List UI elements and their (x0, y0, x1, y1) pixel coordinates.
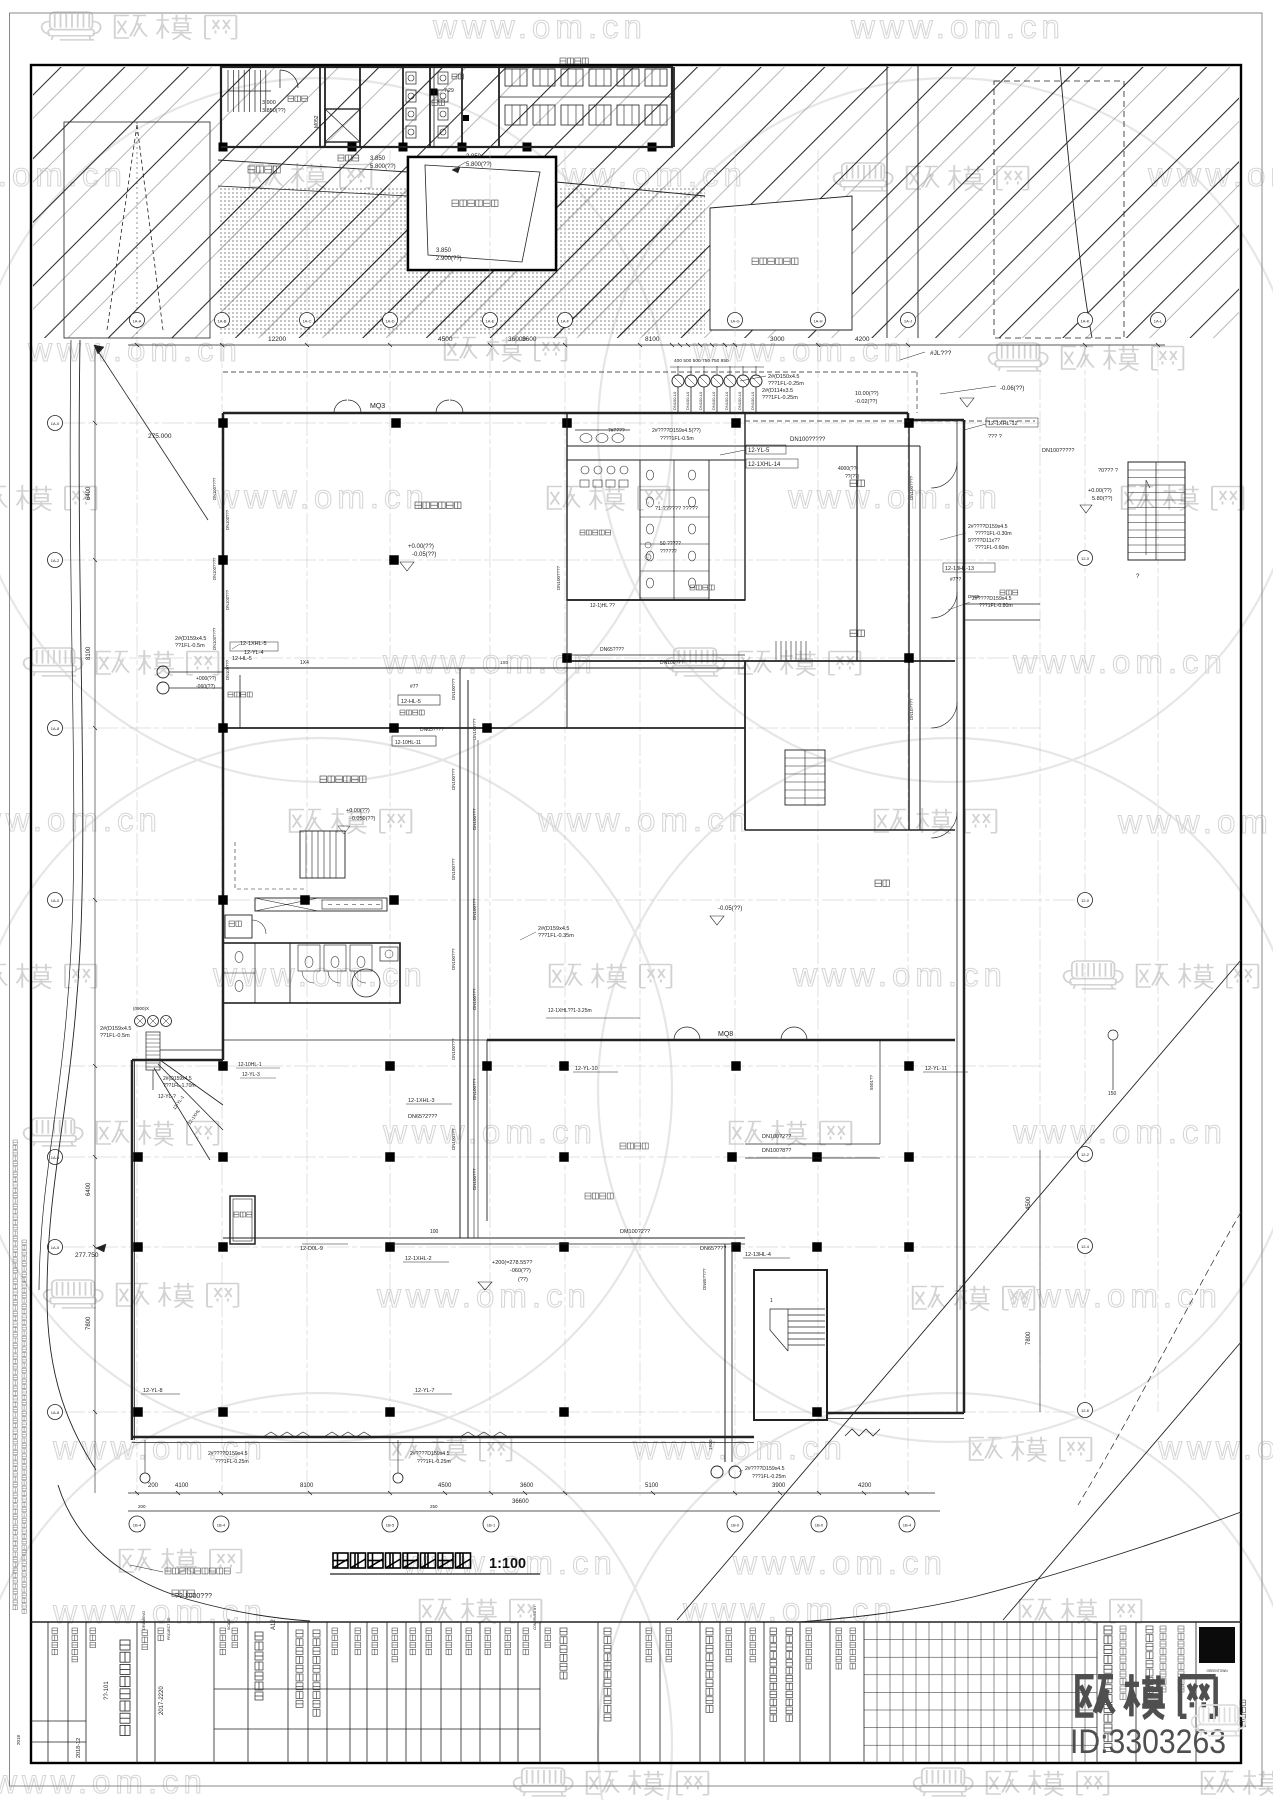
svg-text:2018: 2018 (16, 1734, 21, 1745)
svg-text:12-1XHL-14: 12-1XHL-14 (748, 462, 781, 468)
svg-text:1B-0: 1B-0 (815, 1523, 824, 1528)
svg-text:2.900(??): 2.900(??) (436, 256, 462, 262)
svg-text:DN100???: DN100??? (225, 659, 230, 680)
svg-text:12-1XHL-12: 12-1XHL-12 (988, 421, 1018, 427)
svg-text:MQ3: MQ3 (370, 403, 385, 410)
svg-text:5.800(??): 5.800(??) (466, 162, 492, 168)
svg-text:MQ8: MQ8 (718, 1031, 733, 1038)
svg-text:8100: 8100 (645, 336, 660, 343)
svg-text:??1FL-0.5m: ??1FL-0.5m (175, 643, 205, 649)
svg-text:DM100?2??: DM100?2?? (620, 1229, 650, 1235)
svg-text:12-YL-8: 12-YL-8 (143, 1388, 163, 1394)
svg-text:200: 200 (148, 1483, 159, 1489)
svg-text:3.850: 3.850 (370, 156, 386, 162)
svg-text:???1FL-0.25m: ???1FL-0.25m (768, 381, 804, 387)
svg-text:2017-2220: 2017-2220 (159, 1686, 165, 1715)
svg-text:8100: 8100 (86, 646, 92, 660)
svg-text:12-10HL-11: 12-10HL-11 (395, 740, 421, 746)
svg-text:1X4: 1X4 (300, 660, 309, 666)
svg-text:1A-8: 1A-8 (51, 1410, 60, 1415)
svg-text:DN100????: DN100???? (212, 477, 217, 500)
svg-text:DN100???: DN100??? (451, 768, 456, 790)
svg-text:12-HL-5: 12-HL-5 (232, 656, 252, 662)
svg-text:3900: 3900 (772, 1483, 786, 1489)
svg-text:3.850: 3.850 (466, 154, 482, 160)
svg-text:www.om.cn: www.om.cn (1117, 803, 1273, 840)
svg-text:12-YL-3: 12-YL-3 (242, 1072, 260, 1078)
svg-text:???1FL-0.25m: ???1FL-0.25m (417, 1459, 451, 1465)
svg-text:DN100???: DN100??? (451, 1128, 456, 1150)
svg-text:???1FL-0.35m: ???1FL-0.35m (538, 933, 574, 939)
svg-text:www.om.cn: www.om.cn (537, 801, 752, 838)
svg-text:www.om.cn: www.om.cn (0, 1763, 207, 1800)
svg-text:1A-F: 1A-F (561, 319, 570, 324)
svg-text:DN10????: DN10???? (909, 698, 914, 720)
svg-text:DN100?2??: DN100?2?? (762, 1134, 791, 1140)
svg-text:DRAWING: DRAWING (141, 1611, 146, 1630)
svg-text:???1FL-0.80m: ???1FL-0.80m (979, 603, 1013, 609)
svg-text:www.om.cn: www.om.cn (376, 1277, 591, 1314)
svg-text:DN65????: DN65???? (420, 727, 444, 733)
svg-text:3.850(??): 3.850(??) (262, 108, 286, 114)
svg-text:12-YL-5: 12-YL-5 (748, 448, 770, 454)
svg-text:3600: 3600 (520, 1483, 534, 1489)
svg-text:?0??? ?: ?0??? ? (1098, 468, 1118, 474)
svg-text:12-1)HL ??: 12-1)HL ?? (590, 603, 615, 609)
svg-text:12-0: 12-0 (1081, 556, 1090, 561)
svg-text:5.80(??): 5.80(??) (1092, 496, 1113, 502)
svg-text:#JL???: #JL??? (930, 350, 952, 357)
svg-text:www.om.cn: www.om.cn (787, 478, 1002, 515)
svg-text:2018-12: 2018-12 (76, 1738, 82, 1758)
svg-text:1A-H: 1A-H (813, 319, 822, 324)
svg-text:36000: 36000 (508, 336, 526, 343)
svg-text:1A-2: 1A-2 (51, 558, 60, 563)
svg-text:400 500 500 750 750 850: 400 500 500 750 750 850 (674, 358, 729, 364)
svg-text:150: 150 (1108, 1091, 1117, 1097)
svg-text:4500: 4500 (438, 1483, 452, 1489)
svg-text:??-101: ??-101 (104, 1681, 110, 1700)
svg-text:DN100???: DN100??? (451, 858, 456, 880)
svg-text:9????D11x??: 9????D11x?? (968, 538, 1000, 544)
svg-text:12-YL-10: 12-YL-10 (575, 1066, 598, 1072)
svg-text:PROJECT NO: PROJECT NO (167, 1617, 171, 1640)
svg-text:3.850: 3.850 (436, 248, 452, 254)
svg-text:DN65????: DN65???? (600, 647, 624, 653)
svg-text:4200: 4200 (858, 1483, 872, 1489)
svg-text:www.om.cn: www.om.cn (1012, 643, 1227, 680)
svg-text:2#(D159x4.5: 2#(D159x4.5 (175, 636, 207, 642)
svg-text:5501??: 5501?? (869, 1074, 874, 1090)
svg-text:4100: 4100 (175, 1483, 189, 1489)
svg-text:www.om.cn: www.om.cn (850, 8, 1065, 45)
svg-text:275.000: 275.000 (148, 433, 172, 440)
svg-text:CONFIRMED BY: CONFIRMED BY (533, 1605, 537, 1630)
svg-text:1:100: 1:100 (489, 1556, 526, 1572)
svg-text:????1FL-0.30m: ????1FL-0.30m (975, 531, 1012, 537)
svg-text:??(??): ??(??) (845, 474, 860, 480)
svg-text:4000(??): 4000(??) (838, 466, 858, 472)
svg-text:1A-C: 1A-C (302, 319, 311, 324)
svg-text:1B-0: 1B-0 (731, 1523, 740, 1528)
svg-text:7.29: 7.29 (444, 88, 454, 94)
svg-text:1X0: 1X0 (500, 660, 509, 665)
svg-text:12-13HL-13: 12-13HL-13 (945, 566, 974, 572)
svg-text:2#????D159x4.5(??): 2#????D159x4.5(??) (652, 428, 701, 434)
svg-text:DN100????: DN100???? (909, 475, 914, 500)
svg-text:2#(D150x4.5: 2#(D150x4.5 (768, 374, 800, 380)
svg-text:+0.00(??): +0.00(??) (1088, 488, 1112, 494)
svg-text:1A-0: 1A-0 (51, 898, 60, 903)
svg-text:12-1XHL-2: 12-1XHL-2 (405, 1256, 432, 1262)
svg-text:12-1XHL??1-3.25m: 12-1XHL??1-3.25m (548, 1008, 592, 1014)
svg-text:1A-J: 1A-J (904, 319, 912, 324)
svg-text:2#(D159x4.5: 2#(D159x4.5 (538, 926, 570, 932)
svg-text:100: 100 (430, 1229, 439, 1235)
svg-text:DN100???: DN100??? (225, 589, 230, 610)
svg-text:3.900: 3.900 (262, 100, 276, 106)
svg-text:277.750: 277.750 (75, 1252, 99, 1259)
svg-text:5100: 5100 (645, 1483, 659, 1489)
svg-text:DN100???: DN100??? (472, 898, 477, 920)
svg-text:DN100-L0: DN100-L0 (724, 391, 729, 410)
svg-text:DN100???: DN100??? (472, 718, 477, 740)
svg-text:2#????D159x4.5: 2#????D159x4.5 (745, 1466, 785, 1472)
svg-text:-060(??): -060(??) (196, 684, 215, 690)
svg-text:7800: 7800 (86, 1316, 92, 1330)
svg-text:ID:3303263: ID:3303263 (1070, 1723, 1226, 1761)
svg-text:6400: 6400 (86, 1182, 92, 1196)
svg-text:7#????: 7#???? (608, 428, 625, 434)
svg-text:12-6: 12-6 (1081, 1408, 1090, 1413)
svg-text:12-YL-?: 12-YL-? (158, 1094, 176, 1100)
svg-text:12-YL-7: 12-YL-7 (415, 1388, 435, 1394)
svg-text:1B-1: 1B-1 (487, 1523, 496, 1528)
svg-text:DN100???: DN100??? (451, 948, 456, 970)
svg-text:DN100-L0: DN100-L0 (698, 391, 703, 410)
svg-text:2#????D159x4.5: 2#????D159x4.5 (968, 524, 1008, 530)
svg-text:5.800(??): 5.800(??) (370, 164, 396, 170)
svg-text:2#(D159x4.5: 2#(D159x4.5 (163, 1076, 192, 1082)
svg-text:1A-0: 1A-0 (51, 421, 60, 426)
svg-text:-0.02(??): -0.02(??) (855, 399, 877, 405)
svg-text:DN100???: DN100??? (472, 1078, 477, 1100)
svg-text:12-10HL-1: 12-10HL-1 (238, 1062, 262, 1068)
svg-text:A12: A12 (271, 1619, 277, 1630)
svg-text:??????: ?????? (660, 549, 677, 555)
svg-text:12-13HL-4: 12-13HL-4 (745, 1252, 771, 1258)
svg-text:???1FL-1.70m: ???1FL-1.70m (163, 1083, 196, 1089)
svg-text:1B-4: 1B-4 (133, 1523, 142, 1528)
svg-text:DN65????: DN65???? (702, 1268, 707, 1290)
svg-text:DN100???: DN100??? (225, 509, 230, 530)
svg-text:4500: 4500 (438, 336, 453, 343)
svg-text:???1FL-0.25m: ???1FL-0.25m (215, 1459, 249, 1465)
svg-text:DN100????: DN100???? (212, 627, 217, 650)
svg-text:DN100???: DN100??? (472, 988, 477, 1010)
svg-text:250: 250 (430, 1504, 438, 1509)
svg-text:-0.06(??): -0.06(??) (1000, 386, 1024, 392)
svg-text:SCALE: SCALE (227, 1618, 231, 1630)
svg-text:1A-D: 1A-D (385, 319, 394, 324)
svg-text:1A-E: 1A-E (486, 319, 495, 324)
svg-text:www.om.cn: www.om.cn (1007, 1277, 1222, 1314)
svg-text:???1FL-0.25m: ???1FL-0.25m (752, 1474, 786, 1480)
svg-text:GREENTOWN: GREENTOWN (1206, 1669, 1228, 1673)
svg-text:DN65????: DN65???? (700, 1246, 726, 1252)
svg-text:2#????D159x4.5: 2#????D159x4.5 (972, 596, 1012, 602)
svg-text:????1FL-0.5m: ????1FL-0.5m (660, 436, 694, 442)
svg-text:DN100-L0: DN100-L0 (750, 391, 755, 410)
svg-text:36600: 36600 (512, 1499, 529, 1505)
svg-text:1A-A: 1A-A (133, 319, 142, 324)
svg-text:2#????D159x4.5: 2#????D159x4.5 (208, 1451, 248, 1457)
svg-text:DN65?2???: DN65?2??? (408, 1114, 437, 1120)
svg-text:www.om.cn: www.om.cn (0, 801, 162, 838)
svg-text:DN100-L0: DN100-L0 (737, 391, 742, 410)
svg-text:+200(=278.55??: +200(=278.55?? (492, 1260, 532, 1266)
svg-text:+000(??): +000(??) (196, 676, 216, 682)
svg-text:2#????D159x4.5: 2#????D159x4.5 (410, 1451, 450, 1457)
svg-text:10.00(??): 10.00(??) (855, 391, 879, 397)
svg-text:3000: 3000 (770, 336, 785, 343)
svg-text:50 ?????: 50 ????? (660, 541, 681, 547)
svg-text:12-YL-11: 12-YL-11 (925, 1066, 947, 1072)
svg-text:1B-4: 1B-4 (903, 1523, 912, 1528)
svg-text:www.om.cn: www.om.cn (212, 956, 427, 993)
svg-text:DN100????: DN100???? (556, 565, 561, 590)
svg-text:DN100???: DN100??? (660, 660, 684, 666)
svg-text:-0.05(??): -0.05(??) (412, 552, 436, 558)
svg-text:1A-L: 1A-L (1154, 319, 1163, 324)
svg-text:www.om.cn: www.om.cn (1157, 1429, 1273, 1466)
svg-text:DN100?????: DN100????? (790, 437, 826, 443)
svg-text:200: 200 (138, 1504, 146, 1509)
svg-text:DN100????: DN100???? (212, 557, 217, 580)
svg-text:#7??: #7?? (950, 577, 961, 583)
svg-text:1: 1 (770, 1298, 773, 1304)
svg-text:???1FL-0.60m: ???1FL-0.60m (975, 545, 1009, 551)
svg-text:1A-K: 1A-K (1081, 319, 1090, 324)
svg-text:www.om.cn: www.om.cn (52, 1593, 267, 1630)
svg-text:+0.00(??): +0.00(??) (408, 544, 434, 550)
svg-text:12200: 12200 (268, 336, 286, 343)
svg-text:12-4: 12-4 (1081, 1244, 1090, 1249)
svg-text:DN100?????: DN100????? (1042, 448, 1074, 454)
svg-text:1B-4: 1B-4 (217, 1523, 226, 1528)
svg-text:-060(??): -060(??) (510, 1268, 531, 1274)
svg-text:1A-G: 1A-G (730, 319, 739, 324)
svg-text:M052: M052 (314, 115, 320, 128)
svg-text:DN100???: DN100??? (451, 678, 456, 700)
svg-text:2#(D114x3.5: 2#(D114x3.5 (762, 388, 793, 394)
svg-text:www.om.cn: www.om.cn (632, 1429, 847, 1466)
svg-text:DN100???: DN100??? (451, 1038, 456, 1060)
svg-text:www.om.cn: www.om.cn (214, 478, 429, 515)
svg-text:1B-5: 1B-5 (386, 1523, 395, 1528)
svg-text:www.om.cn: www.om.cn (1012, 1113, 1227, 1150)
svg-text:4200: 4200 (855, 336, 870, 343)
svg-text:DN100-L0: DN100-L0 (672, 391, 677, 410)
svg-text:#7?: #7? (410, 684, 419, 690)
svg-text:www.om.cn: www.om.cn (732, 1544, 947, 1581)
svg-text:(0900)X: (0900)X (133, 1006, 149, 1011)
svg-text:12-HL-5: 12-HL-5 (401, 699, 421, 705)
svg-text:DN100-L0: DN100-L0 (685, 391, 690, 410)
svg-text:1A-5: 1A-5 (51, 1155, 60, 1160)
svg-text:-0.05(??): -0.05(??) (718, 906, 742, 912)
svg-text:DN100-L0: DN100-L0 (711, 391, 716, 410)
svg-text:??1FL-0.5m: ??1FL-0.5m (100, 1033, 130, 1039)
svg-text:12-1XHL-3: 12-1XHL-3 (408, 1098, 435, 1104)
svg-text:12-D0L-9: 12-D0L-9 (300, 1246, 323, 1252)
svg-text:www.om.cn: www.om.cn (792, 956, 1007, 993)
svg-text:+0.00(??): +0.00(??) (346, 808, 370, 814)
svg-text:1X00: 1X00 (708, 1439, 713, 1450)
svg-text:7800: 7800 (1026, 1331, 1032, 1345)
svg-text:2#(D159x4.5: 2#(D159x4.5 (100, 1026, 132, 1032)
svg-text:DN100???: DN100??? (472, 808, 477, 830)
svg-text:DN100?8??: DN100?8?? (762, 1148, 791, 1154)
svg-text:8100: 8100 (300, 1483, 314, 1489)
svg-text:(??): (??) (518, 1277, 528, 1283)
svg-text:???1FL-0.25m: ???1FL-0.25m (762, 395, 798, 401)
svg-text:??? ?: ??? ? (988, 434, 1002, 440)
svg-text:-0.050(??): -0.050(??) (350, 816, 376, 822)
svg-text:?1:?????? ?????: ?1:?????? ????? (655, 506, 698, 512)
svg-text:6400: 6400 (86, 486, 92, 500)
svg-text:1A-8: 1A-8 (51, 726, 60, 731)
svg-text:12-0: 12-0 (1081, 898, 1090, 903)
svg-text:1A-5: 1A-5 (51, 1245, 60, 1250)
svg-text:DN100???: DN100??? (472, 1168, 477, 1190)
svg-text:www.om.cn: www.om.cn (432, 8, 647, 45)
svg-text:1A-B: 1A-B (218, 319, 227, 324)
svg-text:12-2: 12-2 (1081, 1152, 1090, 1157)
